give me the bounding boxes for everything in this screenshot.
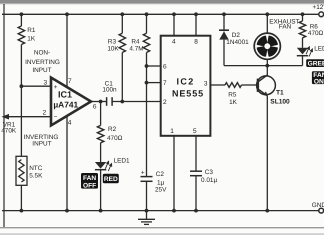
badge FAN ON: [312, 71, 324, 84]
resistor R1: [18, 26, 24, 45]
svg-text:4.7M: 4.7M: [129, 46, 143, 53]
svg-text:10K: 10K: [107, 46, 119, 53]
svg-text:LED1: LED1: [114, 158, 130, 165]
svg-text:ON: ON: [314, 78, 324, 85]
wire emitter to ground rail: [266, 96, 268, 211]
svg-text:2: 2: [43, 110, 47, 117]
svg-text:470Ω: 470Ω: [107, 135, 123, 142]
junction R1 / +12V rail: [20, 12, 24, 16]
wire pin 6 stub: [147, 65, 161, 67]
wire R2 to LED1: [100, 143, 102, 162]
LED1 emission arrows: [105, 161, 111, 171]
svg-text:C2: C2: [156, 171, 165, 178]
svg-text:2: 2: [163, 99, 167, 106]
badge RED: [103, 174, 119, 183]
wire collector: [266, 66, 268, 76]
svg-text:INPUT: INPUT: [32, 141, 51, 148]
wire R3 to trigger node: [121, 53, 123, 102]
wire output to R2: [100, 102, 102, 126]
svg-text:R4: R4: [131, 38, 140, 45]
svg-text:1K: 1K: [229, 99, 238, 106]
resistor R6: [299, 21, 305, 38]
capacitor C2: [141, 176, 153, 178]
resistor R3: [119, 33, 125, 52]
svg-text:GND: GND: [312, 202, 324, 209]
junction R4 / +12V rail: [145, 12, 149, 16]
junction C3 / ground rail: [194, 209, 198, 213]
bottom page shadow: [0, 233, 324, 235]
wire LED2 to collector node: [302, 56, 304, 66]
svg-text:C3: C3: [205, 169, 214, 176]
node R1/NTC junction: [20, 84, 24, 88]
top grey band: [0, 0, 324, 3]
junction emitter / ground rail: [265, 209, 269, 213]
junction LED1 / ground rail: [99, 209, 103, 213]
wire C2 to ground rail: [146, 181, 148, 210]
wire pin 3 to R5: [210, 84, 225, 86]
wire R6 to LED2: [302, 38, 304, 48]
svg-text:R3: R3: [108, 38, 117, 45]
wire C1 to pin 2 of IC2: [112, 101, 161, 103]
svg-text:LED2: LED2: [314, 46, 324, 53]
junction R3 / +12V rail: [120, 12, 124, 16]
wire R1 to node: [20, 45, 22, 157]
LED2 emission arrows: [306, 47, 312, 57]
svg-text:µA741: µA741: [53, 100, 78, 110]
svg-text:4: 4: [172, 38, 176, 45]
svg-text:1µ: 1µ: [157, 180, 165, 187]
svg-text:5.5K: 5.5K: [29, 172, 43, 179]
svg-text:FAN: FAN: [83, 175, 96, 182]
badge GREEN: [306, 59, 324, 67]
+12V top rail: [2, 13, 319, 15]
IC U2 IC2 NE555 box: [161, 36, 211, 136]
wire C3 to ground rail: [195, 176, 197, 211]
svg-text:D2: D2: [232, 32, 241, 39]
resistor R5: [225, 83, 242, 88]
junction pin1 / ground rail: [172, 209, 176, 213]
svg-text:+: +: [141, 169, 145, 176]
svg-text:FAN: FAN: [279, 24, 292, 31]
svg-text:1K: 1K: [27, 35, 36, 42]
svg-text:R2: R2: [108, 126, 117, 133]
svg-text:IC2: IC2: [176, 77, 194, 87]
junction pin7 / +12V rail: [65, 12, 69, 16]
pin 4 wire to ground: [66, 116, 68, 211]
LED2 diode: [297, 48, 308, 55]
resistor R4: [143, 33, 149, 52]
svg-text:INVERTING: INVERTING: [25, 59, 60, 66]
left border / VR1 element line: [3, 4, 5, 227]
wire fan to collector node: [266, 59, 268, 65]
pin 5 wire to C3: [195, 136, 197, 171]
svg-text:100n: 100n: [102, 87, 117, 94]
transistor Q1 T1 SL100: [257, 76, 276, 95]
svg-text:5: 5: [193, 128, 197, 135]
svg-text:+12V: +12V: [313, 4, 324, 11]
svg-text:7: 7: [68, 78, 72, 85]
svg-text:NTC: NTC: [29, 165, 43, 172]
svg-text:6: 6: [163, 63, 167, 70]
svg-text:3: 3: [204, 80, 208, 87]
wire D2 to collector node: [223, 40, 225, 66]
wire rail to fan: [266, 14, 268, 33]
svg-text:3: 3: [43, 80, 47, 87]
junction fan / collector node: [265, 64, 269, 68]
svg-text:GREEN: GREEN: [308, 60, 324, 67]
svg-text:470K: 470K: [1, 128, 17, 135]
op-amp U1 IC1 triangle: [51, 78, 91, 126]
svg-text:4: 4: [68, 120, 72, 127]
LED1 diode: [95, 162, 106, 169]
svg-text:OFF: OFF: [83, 182, 96, 189]
svg-text:NON-: NON-: [34, 49, 50, 56]
ground bottom rail: [2, 210, 319, 212]
junction pin8 / +12V rail: [194, 12, 198, 16]
svg-text:1: 1: [170, 128, 174, 135]
ground symbol: [138, 211, 155, 225]
thermistor NTC: [16, 156, 27, 185]
svg-text:SL100: SL100: [270, 98, 290, 105]
wire pin 7 stub: [147, 82, 161, 84]
capacitor C1 100n: [106, 97, 108, 106]
junction R6 / +12V rail: [301, 12, 305, 16]
junction fan / +12V rail: [265, 12, 269, 16]
junction pin4(IC2) / +12V rail: [172, 12, 176, 16]
svg-text:6: 6: [93, 103, 97, 110]
svg-text:0.01µ: 0.01µ: [201, 177, 217, 184]
+12V terminal: [319, 12, 324, 17]
junction D2 / +12V rail: [222, 12, 226, 16]
junction NTC / ground rail: [20, 209, 24, 213]
bottom border line: [0, 227, 324, 228]
svg-text:T1: T1: [276, 90, 284, 97]
wire R1 branch: [20, 14, 22, 26]
svg-text:8: 8: [194, 39, 198, 46]
svg-text:INPUT: INPUT: [32, 67, 51, 74]
wire LED1 to ground rail: [100, 170, 102, 211]
svg-text:IC1: IC1: [58, 90, 72, 100]
capacitor C3: [190, 170, 202, 172]
GND terminal: [319, 208, 324, 213]
badge FAN OFF: [81, 173, 98, 189]
node R2 branch: [99, 100, 103, 104]
wire rail to D2: [223, 14, 225, 31]
wire NTC to ground rail: [20, 185, 22, 210]
svg-text:RED: RED: [104, 176, 118, 183]
wire rail to R3: [121, 14, 123, 33]
node pin7 junction: [145, 81, 149, 85]
wire R4 to C2: [146, 53, 148, 177]
svg-text:+: +: [54, 84, 58, 91]
resistor R2: [97, 125, 103, 142]
wire collector node: [224, 65, 303, 67]
pin 8 stub: [195, 14, 197, 35]
wire node to pin 3: [21, 85, 50, 87]
svg-text:R1: R1: [27, 27, 36, 34]
svg-text:NE555: NE555: [172, 89, 204, 99]
svg-text:25V: 25V: [155, 187, 167, 194]
exhaust fan M1: [254, 33, 280, 59]
pin 7 wire to rail: [66, 14, 68, 87]
node pin6 junction: [145, 64, 149, 68]
node R3 branch: [120, 100, 124, 104]
diode D2: [219, 29, 229, 31]
wire rail to R4: [146, 14, 148, 33]
wire R5 to base: [242, 84, 258, 86]
potentiometer VR1 wiper arrow: [4, 116, 50, 118]
svg-text:470Ω: 470Ω: [308, 30, 324, 37]
pin 1 wire to ground: [173, 136, 175, 211]
wire rail to R6: [302, 14, 304, 21]
junction pin4 / ground rail: [65, 209, 69, 213]
svg-text:−: −: [54, 114, 58, 121]
svg-text:R5: R5: [228, 92, 237, 99]
svg-text:1N4001: 1N4001: [226, 39, 249, 46]
svg-text:7: 7: [163, 80, 167, 87]
junction C2 / ground rail: [145, 209, 149, 213]
pin 6 output wire: [91, 101, 107, 103]
pin 4 stub: [173, 14, 175, 35]
